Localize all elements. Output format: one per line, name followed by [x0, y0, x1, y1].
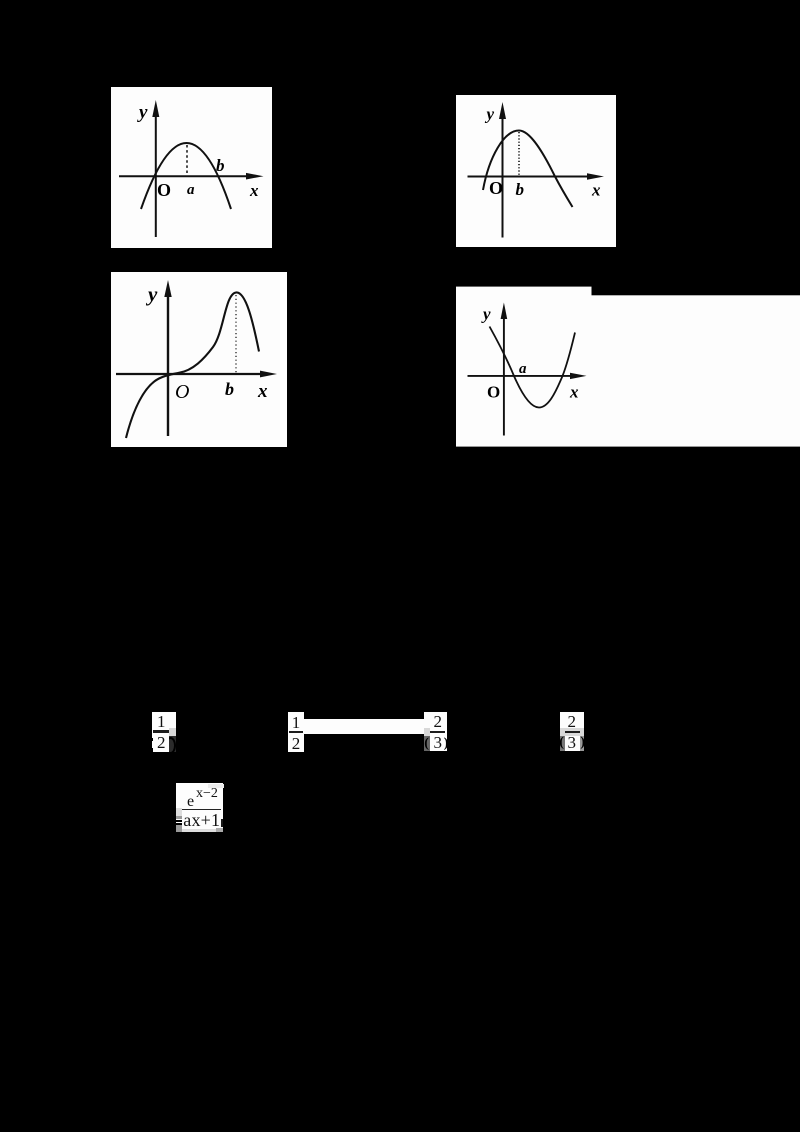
svg-text:x: x — [257, 381, 268, 402]
svg-text:y: y — [481, 305, 491, 324]
svg-text:O: O — [175, 381, 189, 403]
svg-text:y: y — [485, 105, 495, 124]
svg-text:b: b — [216, 156, 225, 175]
svg-text:y: y — [137, 102, 148, 123]
svg-text:x: x — [569, 383, 579, 402]
svg-text:b: b — [516, 180, 525, 199]
svg-text:x: x — [249, 181, 259, 200]
svg-text:O: O — [489, 178, 503, 198]
svg-text:a: a — [187, 182, 195, 198]
svg-text:x: x — [591, 181, 601, 200]
svg-text:b: b — [225, 379, 234, 399]
svg-text:a: a — [519, 361, 527, 377]
svg-text:O: O — [487, 383, 500, 402]
svg-text:O: O — [157, 180, 171, 200]
